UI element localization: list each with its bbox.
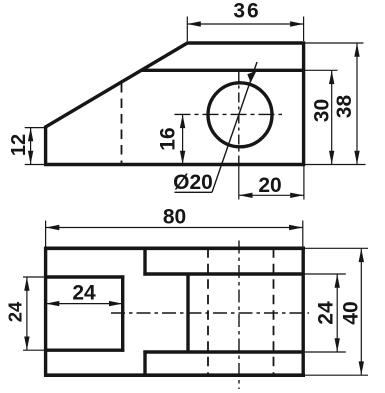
dim 36: extension line left bbox=[186, 17, 188, 42]
dim 36: extension line right bbox=[303, 17, 305, 42]
top view: outer rectangle right edge bbox=[302, 247, 305, 377]
top view: left notch right wall bbox=[121, 275, 124, 351]
front view: right edge bbox=[302, 42, 305, 167]
dim 12: extension top bbox=[25, 127, 44, 129]
dim 40: extension bottom bbox=[305, 374, 368, 376]
svg-text:Ø20: Ø20 bbox=[173, 171, 213, 194]
dim 24 left: dimension line bbox=[26, 277, 28, 350]
dim 30: extension bbox=[305, 69, 338, 71]
svg-text:40: 40 bbox=[340, 301, 363, 324]
top view: middle vertical edge of slant bbox=[186, 274, 189, 352]
dim 36: dimension line bbox=[187, 23, 303, 25]
dim 38: extension bottom bbox=[305, 164, 366, 166]
dim 12: dimension line bbox=[30, 128, 32, 165]
dim 24 left: extension bottom bbox=[23, 349, 44, 351]
top view: left notch top edge bbox=[44, 275, 124, 278]
top view: vertical center line bbox=[238, 241, 240, 390]
dim 40: extension top bbox=[305, 247, 368, 249]
top view: outer rectangle left edge bbox=[44, 247, 47, 377]
top view: step vertical lower bbox=[143, 350, 146, 375]
dim 24 notch: dimension line bbox=[46, 303, 123, 305]
top view: left notch bottom edge bbox=[44, 349, 124, 352]
dim O20: leader line bbox=[212, 62, 257, 192]
svg-text:24: 24 bbox=[72, 282, 96, 305]
dim 24 right: extension top bbox=[305, 273, 346, 275]
dim O20: leader underline bbox=[175, 191, 213, 193]
front view: hidden edge of slot bbox=[121, 83, 123, 164]
svg-text:30: 30 bbox=[311, 99, 334, 122]
dim 38: extension top bbox=[305, 42, 364, 44]
dim 20: extension left (hole axis) bbox=[238, 166, 240, 200]
top view: outer rectangle top edge bbox=[44, 247, 305, 251]
dim 30: dimension line bbox=[331, 71, 333, 165]
dim 80: extension left bbox=[45, 221, 47, 247]
front view: hole circle bbox=[208, 83, 272, 147]
dim 20: dimension line bbox=[239, 194, 304, 196]
top view: outer rectangle bottom edge bbox=[44, 373, 305, 377]
front view: top edge bbox=[187, 41, 306, 45]
front view: bottom edge bbox=[44, 163, 305, 167]
top view: hidden line hole right bbox=[273, 248, 275, 375]
top view: horizontal center line bbox=[111, 312, 309, 314]
top view: inner horizontal upper bbox=[143, 272, 303, 275]
front view: hole vertical center line bbox=[238, 72, 240, 164]
svg-text:36: 36 bbox=[233, 0, 260, 23]
top view: step vertical upper bbox=[143, 248, 146, 275]
svg-text:24: 24 bbox=[315, 301, 338, 325]
svg-text:80: 80 bbox=[163, 206, 186, 229]
svg-text:38: 38 bbox=[333, 95, 356, 119]
dim 40: dimension line bbox=[360, 249, 362, 375]
front view: left edge bbox=[44, 126, 47, 166]
dim 24 right: extension bottom bbox=[305, 351, 346, 353]
dim 80: extension right bbox=[302, 221, 304, 247]
svg-text:12: 12 bbox=[8, 134, 30, 156]
dim 24 left: extension top bbox=[23, 276, 44, 278]
dim 12: extension bottom bbox=[25, 164, 44, 166]
svg-text:16: 16 bbox=[157, 127, 180, 150]
top view: inner horizontal lower bbox=[143, 350, 303, 353]
dim 24 right: dimension line bbox=[336, 274, 338, 351]
dim 16: dimension line bbox=[182, 115, 184, 165]
dim 20: extension right bbox=[303, 166, 305, 200]
front view: slanted edge bbox=[45, 43, 189, 128]
front view: upper inner horizontal edge (step) bbox=[142, 69, 304, 72]
top view: hidden line hole left bbox=[207, 248, 209, 375]
dim O20: leader arrowhead at circle bbox=[247, 71, 256, 83]
front view: hole horizontal center line bbox=[175, 113, 283, 115]
svg-text:24: 24 bbox=[5, 301, 26, 322]
dim 80: dimension line bbox=[46, 227, 303, 229]
svg-text:20: 20 bbox=[258, 174, 281, 197]
dim 38: dimension line bbox=[356, 43, 358, 164]
